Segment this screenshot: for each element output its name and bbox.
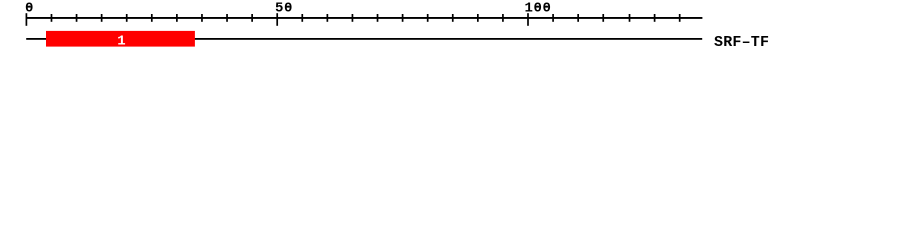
svg-text:100: 100 [525, 1, 552, 17]
svg-text:50: 50 [275, 1, 293, 17]
svg-text:SRF–TF: SRF–TF [714, 34, 769, 51]
svg-text:1: 1 [117, 34, 125, 50]
svg-text:0: 0 [25, 1, 34, 17]
